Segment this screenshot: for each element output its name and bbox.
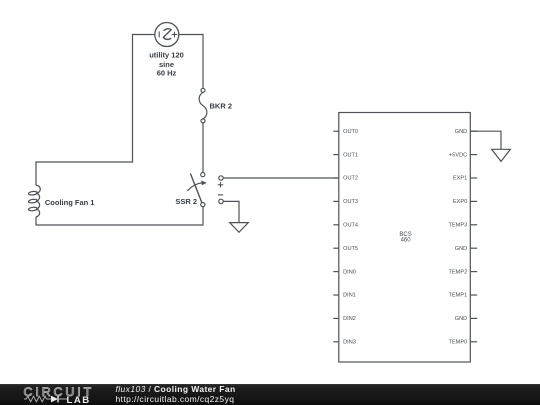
IC name label BCS 460: [399, 232, 411, 244]
svg-text:GND: GND: [455, 246, 467, 252]
svg-text:DIN0: DIN0: [343, 269, 356, 275]
svg-text:+5VDC: +5VDC: [449, 152, 467, 158]
logo resistor-diode line + LAB: [20, 393, 100, 405]
wire bottom loop inductor to SSR: [36, 207, 203, 225]
svg-text:OUT2: OUT2: [343, 176, 358, 182]
IC right pin labels: [449, 129, 468, 346]
svg-text:utility 120: utility 120: [149, 51, 184, 60]
svg-text:Cooling Fan 1: Cooling Fan 1: [45, 198, 95, 207]
IC left pin labels: [343, 129, 358, 346]
svg-text:EXP0: EXP0: [453, 199, 467, 205]
wire SSR- to ground: [223, 201, 239, 222]
svg-text:DIN2: DIN2: [343, 316, 356, 322]
svg-text:TEMP2: TEMP2: [449, 269, 468, 275]
svg-text:TEMP3: TEMP3: [449, 223, 468, 229]
wire SSR+ to OUT2: [223, 177, 339, 179]
svg-text:460: 460: [401, 237, 412, 243]
relay SSR2 switch: [187, 173, 223, 207]
ground (SSR minus): [230, 223, 249, 233]
svg-text:sine: sine: [159, 60, 174, 69]
svg-text:BKR 2: BKR 2: [210, 101, 233, 110]
IC pin stubs left: [333, 131, 339, 342]
AC source V1 symbol: [155, 23, 179, 47]
svg-text:OUT1: OUT1: [343, 152, 358, 158]
svg-text:OUT3: OUT3: [343, 199, 358, 205]
svg-text:EXP1: EXP1: [453, 176, 467, 182]
svg-text:TEMP0: TEMP0: [449, 340, 468, 346]
svg-text:DIN3: DIN3: [343, 340, 356, 346]
breaker BKR2 symbol: [199, 88, 207, 123]
svg-text:SSR 2: SSR 2: [175, 197, 197, 206]
wire top-left from source to inductor: [36, 35, 155, 186]
ground (IC GND): [492, 149, 511, 161]
wire breaker to SSR: [202, 123, 204, 173]
logo CIRCUIT wordmark: [24, 385, 95, 399]
svg-text:OUT0: OUT0: [343, 129, 358, 135]
svg-text:GND: GND: [455, 316, 467, 322]
footer bar: [0, 384, 540, 405]
wire source right to breaker: [179, 35, 203, 89]
IC U1 BCS 460 box: [339, 113, 471, 363]
IC pin stubs right: [470, 131, 477, 342]
svg-text:OUT5: OUT5: [343, 246, 358, 252]
wire IC GND pin to ground: [470, 131, 501, 149]
footer title text: [116, 385, 236, 394]
svg-text:OUT4: OUT4: [343, 223, 358, 229]
svg-text:TEMP1: TEMP1: [449, 293, 468, 299]
AC source V1 label utility 120 sine 60 Hz: [149, 51, 184, 78]
inductor Cooling Fan 1 symbol: [28, 185, 40, 217]
svg-text:60 Hz: 60 Hz: [157, 69, 177, 78]
svg-text:GND: GND: [455, 129, 467, 135]
footer url text: [116, 395, 235, 404]
svg-text:DIN1: DIN1: [343, 293, 356, 299]
